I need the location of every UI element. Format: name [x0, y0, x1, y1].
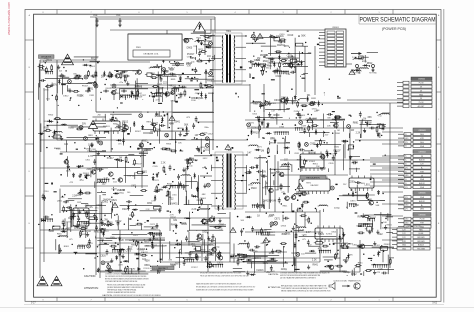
svg-text:RGP10: RGP10	[155, 116, 163, 118]
svg-text:56K: 56K	[204, 72, 209, 75]
svg-text:4.7K: 4.7K	[156, 100, 161, 102]
svg-text:475: 475	[318, 247, 323, 250]
svg-text:47u: 47u	[43, 60, 48, 63]
svg-text:1M: 1M	[261, 150, 264, 153]
svg-text:DEGAUSS COIL: DEGAUSS COIL	[143, 53, 159, 56]
svg-text:PC817: PC817	[203, 257, 209, 259]
svg-text:P-ON: P-ON	[419, 102, 424, 104]
svg-text:POWER SCHEMATIC DIAGRAM: POWER SCHEMATIC DIAGRAM	[360, 16, 436, 23]
svg-text:50V: 50V	[262, 171, 267, 173]
svg-text:R920: R920	[343, 259, 349, 262]
svg-text:L901: L901	[131, 185, 137, 188]
svg-text:GND: GND	[402, 248, 407, 250]
svg-text:2.2K: 2.2K	[161, 163, 166, 165]
svg-text:R821: R821	[111, 200, 117, 202]
svg-text:CAUTION:: CAUTION:	[268, 273, 279, 276]
svg-text:222: 222	[170, 197, 175, 200]
svg-text:IC901: IC901	[326, 234, 333, 236]
svg-text:DEG: DEG	[420, 209, 424, 211]
svg-text:4.7K: 4.7K	[135, 86, 140, 88]
svg-text:FR107: FR107	[370, 217, 377, 219]
svg-text:C821: C821	[66, 222, 72, 224]
svg-text:Q901: Q901	[57, 200, 63, 202]
svg-text:1/2W: 1/2W	[88, 144, 94, 147]
svg-text:AUDIO: AUDIO	[419, 182, 425, 185]
svg-text:C905: C905	[184, 41, 190, 43]
svg-text:YEL/GRN: YEL/GRN	[417, 248, 426, 250]
svg-text:D903: D903	[274, 100, 280, 102]
svg-text:2.2K: 2.2K	[146, 209, 151, 211]
svg-text:D812: D812	[248, 185, 254, 187]
svg-text:5: 5	[186, 12, 187, 14]
svg-text:B+: B+	[405, 156, 407, 158]
svg-text:C910: C910	[44, 191, 50, 193]
svg-text:D903: D903	[83, 245, 88, 247]
svg-text:104: 104	[358, 57, 363, 60]
svg-text:10K: 10K	[343, 142, 347, 144]
svg-text:1: 1	[378, 12, 379, 14]
svg-text:2.2K: 2.2K	[378, 269, 383, 271]
svg-text:FR107: FR107	[135, 131, 141, 133]
svg-text:AUDIO: AUDIO	[419, 159, 425, 162]
svg-text:5-62: 5-62	[432, 302, 437, 304]
svg-text:0.47: 0.47	[169, 186, 174, 188]
svg-text:R841: R841	[253, 104, 259, 106]
svg-text:PC817: PC817	[107, 158, 115, 160]
svg-text:R812: R812	[122, 121, 128, 124]
svg-text:D841: D841	[88, 243, 94, 245]
svg-text:25V: 25V	[53, 83, 58, 86]
svg-text:CN8003: CN8003	[418, 130, 426, 132]
svg-text:C812: C812	[132, 71, 137, 73]
svg-text:56K: 56K	[355, 204, 360, 207]
svg-text:GND: GND	[402, 245, 407, 247]
svg-text:CONTINUED CRITIQUES SPECIAL RE: CONTINUED CRITIQUES SPECIAL REPLACE	[143, 267, 166, 270]
svg-text:REPLACE MARQUE QUE COMPOSANTS: REPLACE MARQUE QUE COMPOSANTS CONTINUED …	[196, 286, 256, 289]
svg-text:C821: C821	[147, 203, 153, 205]
svg-text:PC817: PC817	[168, 67, 175, 69]
svg-text:CAUTION:: CAUTION:	[102, 294, 113, 297]
svg-text:D871: D871	[212, 249, 218, 251]
svg-text:BROWN: BROWN	[418, 241, 426, 243]
svg-text:4: 4	[234, 12, 235, 14]
svg-text:KIA431: KIA431	[170, 202, 178, 205]
svg-text:REGULATION: REGULATION	[306, 176, 320, 179]
svg-text:C821: C821	[202, 232, 208, 234]
svg-text:6: 6	[138, 299, 139, 301]
svg-text:R881: R881	[94, 231, 100, 234]
svg-text:D812: D812	[351, 274, 357, 276]
svg-text:PIECE QUE PAR THIS SPECIAL COM: PIECE QUE PAR THIS SPECIAL COMPONENTS SO…	[200, 274, 249, 277]
svg-text:68K: 68K	[61, 197, 65, 199]
svg-text:R831: R831	[155, 114, 161, 116]
svg-text:(POWER PCB): (POWER PCB)	[382, 27, 407, 31]
svg-text:R920: R920	[274, 114, 281, 117]
svg-text:Q901: Q901	[358, 245, 364, 247]
svg-text:25V: 25V	[325, 135, 329, 137]
svg-text:R915: R915	[355, 267, 361, 269]
svg-text:R881: R881	[88, 135, 93, 137]
svg-text:ZD901: ZD901	[200, 198, 207, 200]
svg-text:102: 102	[301, 179, 306, 182]
svg-text:R910: R910	[335, 257, 341, 260]
svg-text:C910: C910	[219, 225, 225, 227]
svg-text:D871: D871	[175, 263, 181, 265]
svg-text:2200p: 2200p	[275, 69, 283, 72]
svg-text:D812: D812	[203, 158, 208, 160]
svg-text:330u: 330u	[118, 73, 124, 76]
svg-text:25V: 25V	[255, 247, 259, 249]
svg-text:C821: C821	[77, 202, 82, 204]
svg-text:C920: C920	[275, 75, 281, 78]
svg-text:C905: C905	[171, 100, 176, 102]
svg-text:C871: C871	[150, 224, 156, 226]
svg-text:FR107: FR107	[334, 149, 342, 152]
svg-text:ZD901: ZD901	[87, 169, 94, 171]
svg-text:IC803: IC803	[359, 183, 366, 185]
svg-text:C920: C920	[153, 239, 159, 241]
svg-text:473: 473	[66, 227, 71, 230]
svg-text:C851: C851	[294, 153, 300, 155]
svg-text:PC817: PC817	[191, 267, 198, 269]
svg-text:2200p: 2200p	[197, 200, 204, 202]
svg-text:CN8005: CN8005	[418, 193, 426, 195]
svg-text:C871: C871	[154, 180, 159, 182]
svg-text:R861: R861	[191, 97, 198, 100]
svg-text:L901: L901	[87, 151, 93, 153]
svg-text:33K: 33K	[349, 255, 353, 257]
svg-text:8: 8	[42, 12, 43, 14]
svg-text:C905: C905	[44, 89, 50, 91]
svg-text:R920: R920	[196, 37, 201, 39]
svg-text:C831: C831	[291, 252, 297, 255]
svg-text:COMPOSANTS PART PAR UNE COMPON: COMPOSANTS PART PAR UNE COMPONENTS SPECI…	[105, 280, 138, 283]
svg-text:2200p: 2200p	[334, 208, 341, 210]
svg-text:10K: 10K	[327, 125, 331, 127]
svg-text:Q901: Q901	[312, 118, 318, 120]
svg-text:L901: L901	[376, 245, 380, 247]
svg-text:D910: D910	[52, 137, 58, 139]
svg-text:Q901: Q901	[285, 233, 291, 236]
svg-text:C905: C905	[329, 163, 335, 165]
svg-text:RGP10: RGP10	[271, 118, 277, 120]
svg-text:331: 331	[173, 219, 178, 222]
svg-text:33K: 33K	[193, 249, 197, 251]
svg-text:R915: R915	[171, 86, 177, 88]
svg-text:4.7K: 4.7K	[118, 264, 123, 266]
svg-text:C905: C905	[253, 251, 259, 253]
svg-text:D903: D903	[281, 225, 287, 227]
svg-text:R881: R881	[353, 121, 359, 124]
svg-text:ZD901: ZD901	[251, 127, 259, 130]
svg-text:4.7K: 4.7K	[88, 155, 93, 158]
svg-text:100: 100	[189, 165, 192, 167]
svg-text:RL801: RL801	[103, 126, 110, 128]
svg-text:ATTENTION:: ATTENTION:	[84, 287, 99, 290]
svg-text:COMPONENTS REPLACE THIS EXACT: COMPONENTS REPLACE THIS EXACT FOR USE MA…	[113, 294, 161, 297]
svg-text:RGP10: RGP10	[277, 44, 285, 47]
svg-text:HAZARD REPLACEMENT SAFETY SONT: HAZARD REPLACEMENT SAFETY SONT PART PAR …	[196, 283, 242, 286]
svg-text:10K: 10K	[207, 38, 212, 40]
svg-text:R915: R915	[260, 175, 267, 178]
svg-text:ZD901: ZD901	[254, 258, 262, 260]
svg-text:KIA431: KIA431	[135, 254, 143, 257]
svg-text:0.47: 0.47	[247, 152, 252, 154]
svg-text:10K: 10K	[379, 248, 383, 250]
svg-text:C871: C871	[274, 219, 280, 221]
svg-text:C905: C905	[310, 143, 316, 146]
svg-text:450V: 450V	[145, 150, 151, 152]
svg-text:D871: D871	[348, 244, 354, 246]
svg-text:2200p: 2200p	[281, 269, 288, 271]
svg-text:4: 4	[234, 299, 235, 301]
svg-text:450V: 450V	[145, 260, 151, 262]
svg-text:L901: L901	[296, 114, 302, 116]
svg-text:L901: L901	[365, 183, 371, 186]
svg-text:CN8004: CN8004	[418, 152, 426, 154]
svg-text:D812: D812	[152, 245, 158, 247]
svg-text:P-ON: P-ON	[420, 219, 425, 221]
svg-text:C905: C905	[302, 234, 308, 236]
svg-text:475: 475	[218, 227, 223, 230]
svg-text:2200p: 2200p	[118, 193, 125, 195]
svg-text:1M: 1M	[337, 130, 340, 132]
svg-text:B+: B+	[421, 205, 423, 207]
svg-text:R881: R881	[144, 265, 150, 267]
svg-text:R881: R881	[131, 244, 136, 246]
svg-text:4.7K: 4.7K	[300, 230, 305, 232]
svg-text:BLUE: BLUE	[419, 233, 424, 235]
svg-text:D871: D871	[350, 201, 356, 203]
svg-text:BLACK: BLACK	[418, 244, 425, 247]
svg-text:Q901: Q901	[142, 172, 148, 174]
svg-text:0.47: 0.47	[49, 231, 54, 233]
svg-text:4.7K: 4.7K	[120, 189, 125, 192]
svg-text:GND: GND	[419, 94, 424, 96]
svg-text:C831: C831	[271, 172, 277, 175]
svg-text:C851: C851	[101, 75, 107, 77]
svg-text:2W: 2W	[139, 97, 142, 99]
svg-text:PC817: PC817	[187, 53, 195, 56]
svg-text:FR107: FR107	[253, 133, 261, 135]
svg-text:1: 1	[378, 299, 379, 301]
svg-text:CN8006: CN8006	[418, 214, 426, 216]
svg-text:C851: C851	[200, 147, 206, 149]
svg-text:2.2K: 2.2K	[192, 208, 197, 211]
svg-text:D812: D812	[116, 220, 123, 223]
svg-text:R851: R851	[245, 257, 251, 259]
svg-text:R821: R821	[103, 231, 109, 233]
svg-text:R910: R910	[44, 127, 50, 129]
svg-text:D812: D812	[63, 95, 69, 97]
svg-text:C821: C821	[163, 71, 169, 74]
svg-text:2200p: 2200p	[344, 272, 351, 274]
svg-text:D910: D910	[251, 187, 257, 190]
svg-text:DEG: DEG	[420, 142, 424, 144]
svg-text:2W: 2W	[135, 98, 138, 100]
svg-text:68K: 68K	[43, 131, 47, 133]
svg-text:450V: 450V	[262, 262, 268, 265]
svg-text:R920: R920	[180, 222, 186, 225]
svg-text:475: 475	[118, 144, 121, 146]
svg-text:5-27: 5-27	[31, 302, 36, 304]
svg-text:7: 7	[90, 299, 91, 301]
svg-text:56K: 56K	[184, 123, 189, 126]
svg-text:C909: C909	[116, 15, 120, 17]
svg-text:R920: R920	[77, 95, 83, 98]
svg-text:R910: R910	[270, 143, 276, 145]
svg-text:56K: 56K	[301, 34, 306, 37]
svg-text:R905: R905	[142, 140, 148, 142]
svg-text:D871: D871	[257, 147, 262, 149]
svg-text:R831: R831	[387, 225, 393, 227]
svg-text:D841: D841	[270, 271, 275, 273]
svg-text:CAUTION:: CAUTION:	[84, 275, 96, 278]
svg-text:C851: C851	[91, 149, 96, 151]
svg-text:R831: R831	[96, 169, 102, 171]
svg-text:5: 5	[186, 299, 187, 301]
svg-text:ZD901: ZD901	[83, 173, 90, 175]
svg-text:R915: R915	[172, 75, 177, 77]
svg-text:2: 2	[330, 299, 331, 301]
svg-text:1K: 1K	[257, 215, 260, 218]
svg-text:C821: C821	[318, 233, 324, 236]
svg-text:D903: D903	[187, 48, 193, 50]
svg-text:2W: 2W	[98, 114, 101, 116]
svg-text:KA7632: KA7632	[311, 184, 320, 187]
svg-text:R841: R841	[377, 124, 383, 126]
svg-text:C920: C920	[279, 34, 285, 36]
svg-text:P-ON: P-ON	[419, 83, 424, 85]
svg-text:1M: 1M	[281, 176, 284, 178]
svg-text:R871: R871	[358, 216, 364, 219]
svg-text:104: 104	[59, 70, 62, 72]
svg-text:1M: 1M	[278, 109, 281, 111]
svg-text:R841: R841	[283, 206, 288, 208]
svg-text:KIA431: KIA431	[195, 256, 201, 259]
svg-text:D841: D841	[156, 130, 162, 132]
svg-text:ZD901: ZD901	[129, 215, 136, 217]
svg-text:WIRE COLOR: WIRE COLOR	[408, 226, 421, 228]
svg-text:C851: C851	[217, 262, 224, 265]
svg-text:HOT GND: HOT GND	[369, 73, 378, 75]
svg-text:2.2K: 2.2K	[119, 239, 124, 242]
svg-text:1N4148: 1N4148	[268, 201, 276, 203]
svg-text:8: 8	[42, 299, 43, 301]
svg-text:D903: D903	[291, 101, 296, 103]
svg-text:D910: D910	[122, 209, 128, 211]
svg-text:C831: C831	[195, 93, 201, 95]
svg-text:ATTENTION:: ATTENTION:	[268, 286, 281, 289]
svg-text:4.7K: 4.7K	[151, 200, 156, 202]
svg-text:2.2K: 2.2K	[312, 260, 317, 262]
svg-text:R905: R905	[207, 80, 213, 82]
svg-text:C905: C905	[334, 265, 339, 267]
svg-text:D903: D903	[320, 167, 326, 170]
svg-text:C910: C910	[287, 34, 293, 37]
svg-text:C910: C910	[352, 162, 358, 164]
svg-text:PC817: PC817	[294, 111, 300, 113]
svg-text:2W: 2W	[159, 87, 163, 90]
svg-text:R831: R831	[311, 98, 317, 100]
svg-text:R861: R861	[335, 133, 340, 135]
svg-text:R881: R881	[151, 228, 157, 230]
svg-text:L901: L901	[272, 103, 276, 105]
svg-text:AUDIO: AUDIO	[419, 200, 425, 203]
svg-text:102: 102	[357, 68, 360, 70]
svg-text:2: 2	[330, 12, 331, 14]
svg-text:Q901: Q901	[198, 98, 204, 100]
svg-text:IC801: IC801	[309, 161, 316, 163]
svg-text:D841: D841	[44, 121, 49, 123]
svg-text:R861: R861	[64, 246, 70, 248]
svg-text:UF4004: UF4004	[137, 248, 146, 251]
svg-text:C908: C908	[93, 15, 97, 17]
svg-text:R841: R841	[313, 264, 319, 266]
svg-text:FR107: FR107	[82, 85, 89, 87]
svg-text:C920: C920	[100, 256, 106, 258]
svg-text:D841: D841	[174, 121, 180, 124]
svg-text:Q901: Q901	[326, 266, 331, 268]
svg-text:C920: C920	[305, 220, 311, 222]
svg-text:FR107: FR107	[54, 148, 61, 150]
svg-text:PC817: PC817	[205, 41, 213, 43]
svg-text:Q901: Q901	[90, 66, 96, 68]
svg-text:CN801: CN801	[332, 27, 340, 29]
svg-text:R871: R871	[127, 249, 133, 251]
svg-text:4.7K: 4.7K	[170, 214, 175, 216]
svg-text:R915: R915	[166, 144, 172, 146]
svg-text:6: 6	[138, 12, 139, 14]
svg-text:CAUTION:: CAUTION:	[125, 267, 136, 270]
svg-text:450V: 450V	[66, 171, 71, 173]
svg-text:QUICK DIODE, TRANSISTOR: QUICK DIODE, TRANSISTOR	[333, 280, 361, 283]
svg-text:2200p: 2200p	[40, 70, 47, 72]
svg-text:33K: 33K	[367, 116, 372, 119]
svg-text:R821: R821	[307, 127, 313, 129]
svg-text:R861: R861	[115, 93, 120, 95]
svg-text:2.2K: 2.2K	[356, 133, 361, 135]
svg-text:10K: 10K	[256, 60, 261, 62]
svg-text:ZD901: ZD901	[101, 201, 109, 203]
svg-text:R920: R920	[170, 217, 176, 219]
svg-text:FR107: FR107	[91, 58, 98, 60]
svg-text:D841: D841	[86, 149, 92, 151]
svg-text:FR107: FR107	[151, 123, 159, 125]
svg-text:R910: R910	[48, 114, 54, 116]
svg-text:www.s-manuals.com: www.s-manuals.com	[7, 2, 11, 35]
svg-text:3: 3	[282, 299, 283, 301]
svg-text:D841: D841	[260, 103, 267, 106]
svg-text:475: 475	[377, 114, 382, 117]
svg-text:1N4148: 1N4148	[84, 231, 91, 233]
svg-text:50V: 50V	[82, 123, 87, 125]
svg-text:IDENTIFIED LES HAZARD PART IDE: IDENTIFIED LES HAZARD PART IDENTIFIES SP…	[107, 291, 136, 294]
svg-text:R905: R905	[78, 245, 84, 247]
svg-text:ZD901: ZD901	[384, 244, 391, 246]
svg-text:C905: C905	[153, 166, 159, 168]
svg-text:R831: R831	[364, 223, 370, 226]
svg-text:2.2K: 2.2K	[72, 195, 77, 197]
svg-text:R861: R861	[277, 52, 282, 54]
svg-text:KIA431: KIA431	[141, 251, 149, 254]
svg-text:R841: R841	[171, 224, 177, 226]
svg-text:7: 7	[90, 12, 91, 14]
svg-text:L901: L901	[189, 253, 193, 255]
svg-text:BROWN: BROWN	[418, 237, 426, 239]
svg-text:D903: D903	[300, 115, 305, 117]
svg-text:1/2W: 1/2W	[301, 126, 306, 128]
